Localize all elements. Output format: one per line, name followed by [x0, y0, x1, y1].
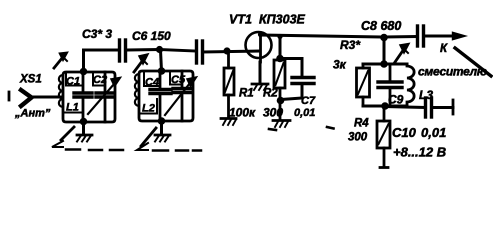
- node R2 bottom: [277, 97, 285, 105]
- wire tank1 top to C3: [84, 50, 119, 71]
- ground tank2: [155, 135, 170, 142]
- node drain/tank3: [380, 34, 388, 42]
- VT1 channel: [259, 34, 262, 63]
- node R2: [276, 55, 284, 63]
- inductor L1: [59, 75, 63, 107]
- wire node to tank2: [161, 50, 162, 71]
- node top wire: [156, 46, 163, 53]
- stray mark right: [327, 127, 334, 129]
- svg-text:3к: 3к: [333, 58, 347, 72]
- svg-text:100к: 100к: [229, 106, 256, 120]
- svg-text:C6 150: C6 150: [132, 29, 171, 43]
- svg-text:300: 300: [263, 106, 283, 120]
- label box C2: [93, 73, 105, 86]
- gang dashes left: [66, 148, 123, 151]
- node tank2 top: [158, 67, 166, 75]
- transistor VT1: [246, 32, 272, 58]
- capacitor C3: [120, 40, 126, 61]
- svg-text:C10: C10: [392, 125, 417, 140]
- capacitor C2 (variable): [96, 72, 114, 122]
- capacitor C1: [74, 72, 92, 122]
- capacitor C6: [197, 41, 203, 63]
- inductor L3: [407, 64, 414, 106]
- svg-text:C9: C9: [388, 93, 404, 107]
- label box C4: [144, 72, 160, 86]
- tank3 top wire: [363, 63, 407, 66]
- arrow of C5: [165, 83, 190, 115]
- wire C7 branch top: [280, 59, 302, 78]
- svg-text:C1: C1: [66, 76, 80, 88]
- gang line arrow tail C2: [61, 127, 74, 140]
- connector XS1: [21, 90, 32, 106]
- output arrowhead: [453, 32, 466, 39]
- wire XS1 to L1: [31, 96, 61, 99]
- wire node to C6: [159, 50, 195, 52]
- capacitor C9: [378, 64, 402, 106]
- gang dashes right: [153, 149, 201, 152]
- wire drain to C8: [384, 35, 416, 39]
- wire C3 to node: [126, 48, 158, 52]
- node tank2 bottom: [158, 117, 166, 125]
- svg-text:C8 680: C8 680: [361, 19, 401, 33]
- resistor R3: [357, 64, 370, 106]
- svg-text:R1: R1: [239, 88, 254, 100]
- ground VT1 source: [252, 84, 268, 90]
- stray mark left: [269, 129, 276, 130]
- capacitor C8: [418, 26, 424, 46]
- svg-text:+8...12 В: +8...12 В: [393, 145, 446, 160]
- resistor R4: [377, 107, 390, 168]
- label box L1: [65, 112, 81, 114]
- wire node to tank3: [383, 38, 386, 65]
- end tick C10: [452, 100, 455, 114]
- svg-text:R2: R2: [263, 88, 278, 100]
- svg-text:L2: L2: [142, 103, 155, 115]
- svg-text:R4: R4: [354, 118, 369, 130]
- VT1 drain node dot: [258, 32, 263, 37]
- arrow of C2: [88, 84, 114, 114]
- svg-text:КП303Е: КП303Е: [259, 13, 306, 27]
- node R1: [223, 47, 230, 54]
- svg-text:C3* 3: C3* 3: [82, 27, 112, 41]
- wire VT1 source to ground: [259, 62, 262, 83]
- wire C10 right: [432, 106, 453, 109]
- node tank3 top: [380, 60, 388, 68]
- capacitor C5 (variable): [173, 71, 192, 121]
- inductor L2: [135, 74, 139, 106]
- svg-text:R3*: R3*: [340, 38, 361, 52]
- gang chevron 1: [52, 141, 63, 147]
- node R2 top branch: [277, 34, 282, 39]
- tank 1 loop: [63, 72, 115, 122]
- capacitor C7: [292, 78, 314, 84]
- node tank3 bottom: [381, 102, 389, 110]
- connector XS1 pin tick: [8, 92, 11, 100]
- resistor R1: [224, 51, 234, 117]
- ground R2/C7: [273, 121, 290, 128]
- label box C1: [66, 73, 83, 86]
- trimmer arrow near tank2: [134, 60, 143, 72]
- gang line arrow tail C5: [141, 128, 156, 146]
- wire tank2 to ground: [160, 121, 163, 134]
- node tank1 bottom: [80, 118, 88, 126]
- wire tank1 to ground: [82, 122, 85, 134]
- ground tank1: [77, 135, 92, 142]
- svg-text:„Ант”: „Ант”: [14, 108, 51, 120]
- node tank1 top: [80, 68, 88, 76]
- svg-text:C4: C4: [145, 77, 159, 89]
- tank 2 loop: [139, 71, 193, 121]
- svg-text:К: К: [440, 43, 448, 55]
- wire C8 to arrow: [424, 35, 452, 38]
- capacitor C4: [150, 71, 171, 121]
- wire drain line: [261, 35, 383, 37]
- svg-text:C7: C7: [301, 95, 316, 107]
- svg-text:0,01: 0,01: [294, 107, 315, 119]
- wire tank3 bottom to C10: [385, 107, 424, 108]
- trimmer arrow near tank1: [54, 57, 63, 68]
- svg-text:L1: L1: [66, 102, 79, 114]
- gang chevron 2: [137, 143, 148, 150]
- wire C7 bottom: [281, 84, 302, 100]
- svg-text:XS1: XS1: [19, 74, 42, 86]
- svg-text:0,01: 0,01: [421, 125, 446, 140]
- wire drain to R2: [279, 37, 282, 58]
- label box L2: [140, 99, 157, 114]
- svg-text:300: 300: [348, 132, 368, 144]
- svg-text:C5: C5: [171, 74, 186, 86]
- trimmer arrow C9: [395, 49, 404, 62]
- ground R1: [221, 119, 236, 126]
- svg-text:VT1: VT1: [229, 13, 252, 27]
- label box C5: [170, 72, 182, 85]
- tank3 bottom wire: [363, 105, 407, 108]
- wire C6 to gate: [203, 51, 260, 52]
- diagonal mark top right: [455, 48, 491, 76]
- capacitor C10: [426, 98, 432, 117]
- resistor R2: [274, 60, 285, 119]
